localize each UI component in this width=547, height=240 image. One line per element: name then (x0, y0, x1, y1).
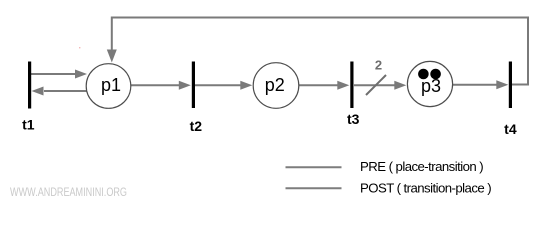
svg-text:WWW.ANDREAMININI.ORG: WWW.ANDREAMININI.ORG (10, 187, 127, 199)
svg-text:t4: t4 (504, 121, 517, 137)
svg-text:t2: t2 (190, 118, 203, 134)
svg-text:p1: p1 (101, 75, 121, 95)
svg-text:t3: t3 (347, 111, 360, 127)
svg-text:PRE ( place-transition ): PRE ( place-transition ) (360, 159, 483, 174)
svg-text:p2: p2 (265, 75, 285, 95)
svg-text:p3: p3 (421, 76, 441, 96)
svg-text:POST ( transition-place ): POST ( transition-place ) (360, 180, 491, 195)
svg-text:t1: t1 (22, 117, 35, 133)
svg-text:2: 2 (375, 58, 382, 73)
